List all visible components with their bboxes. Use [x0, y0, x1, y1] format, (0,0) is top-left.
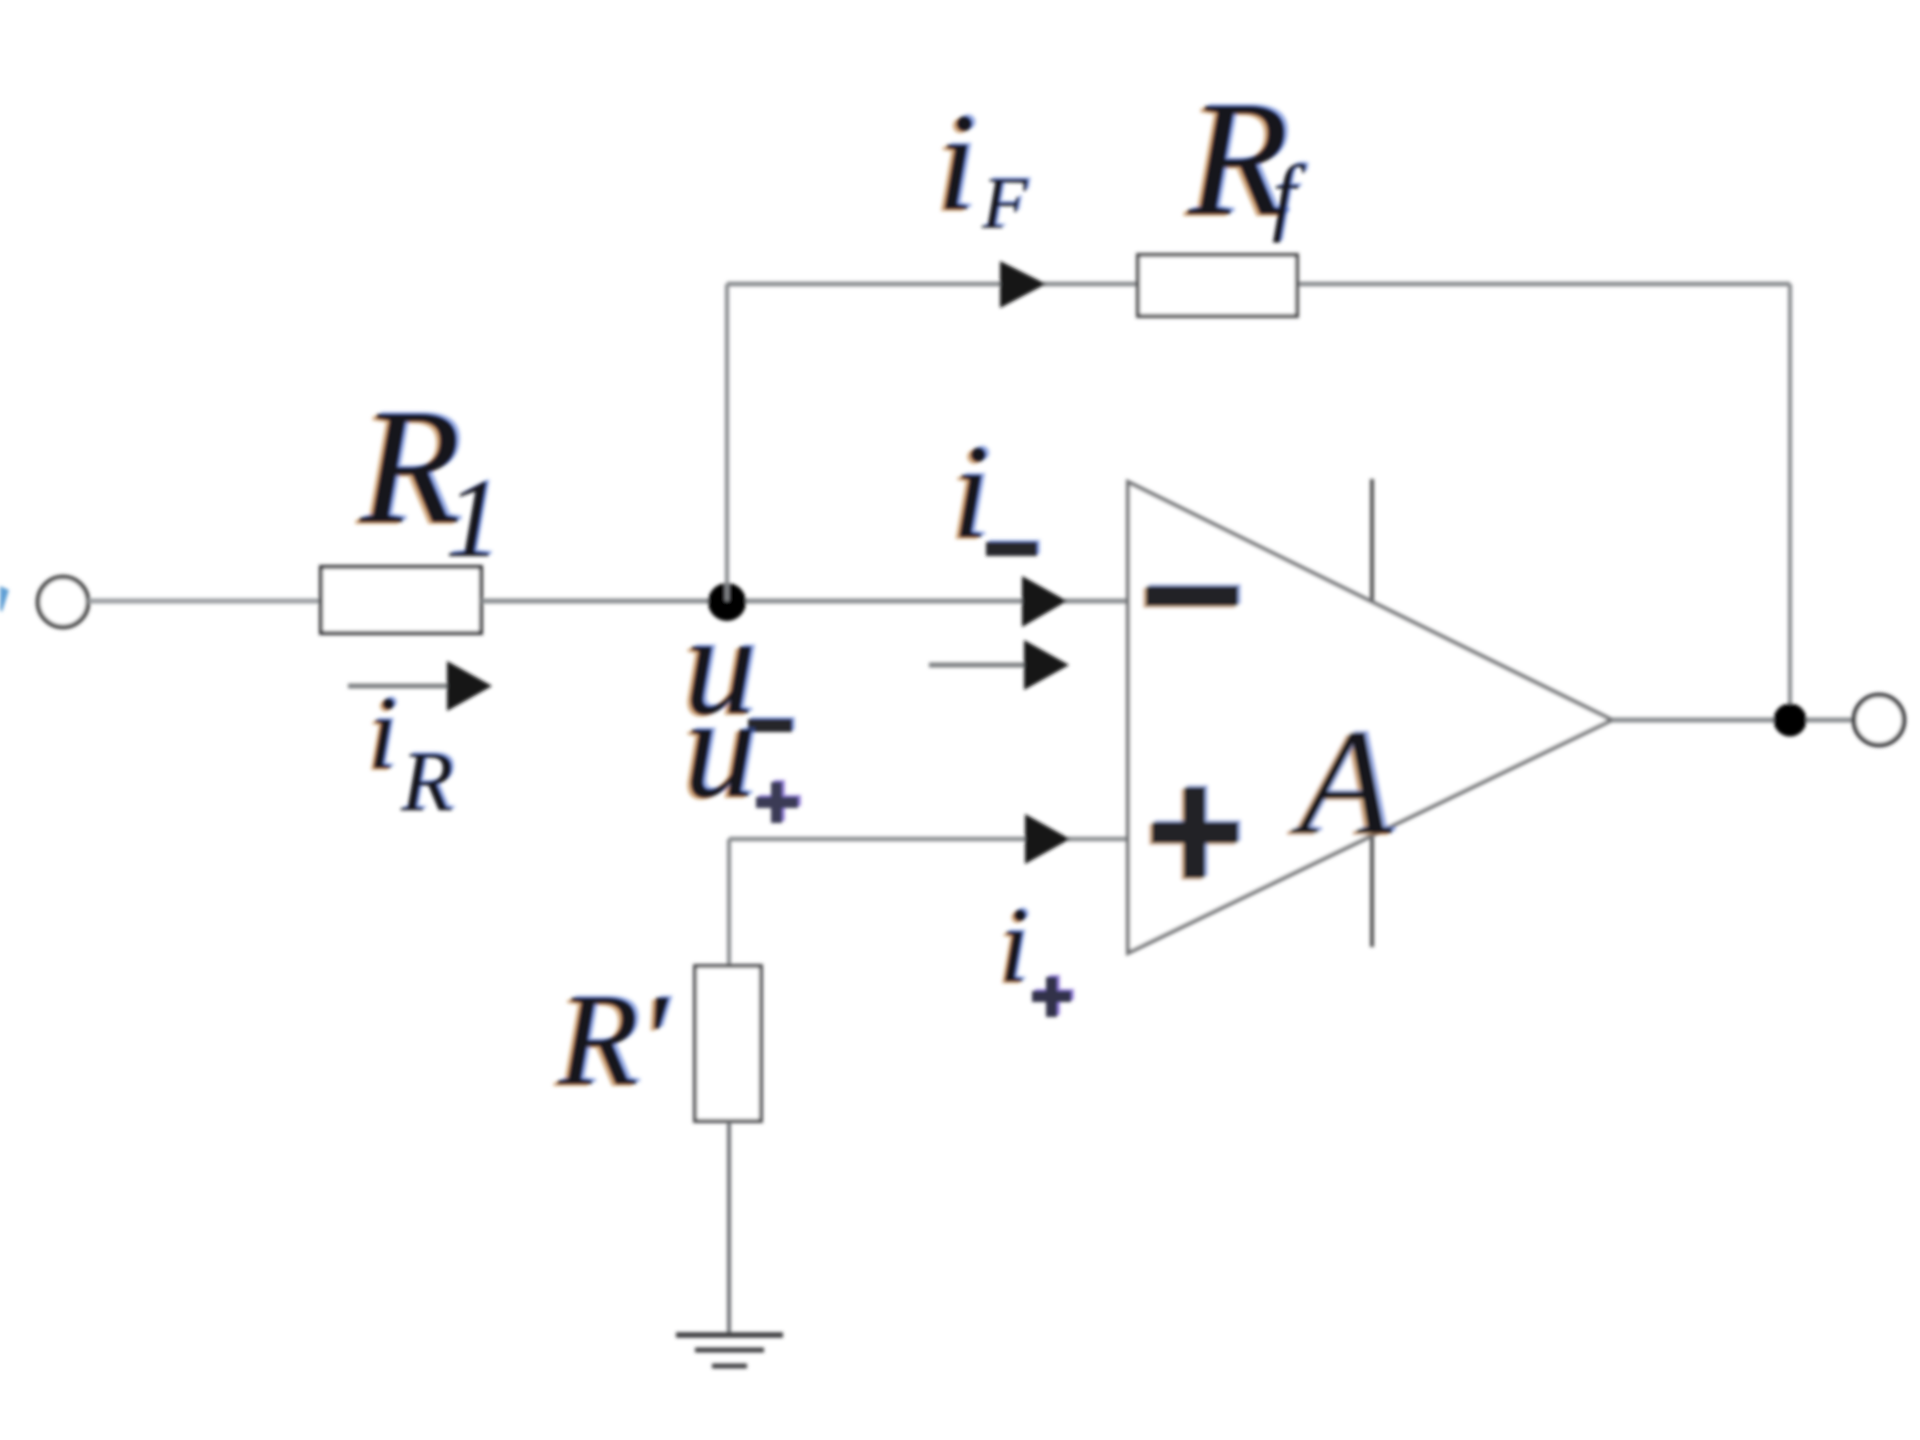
arrow (middle short arrow) [929, 640, 1069, 690]
svg-text:R': R' [557, 966, 670, 1113]
label Rf [1183, 65, 1309, 252]
svg-text:i: i [368, 674, 397, 791]
svg-text:i: i [999, 886, 1029, 1005]
resistor R' [695, 966, 761, 1121]
svg-text:R: R [400, 733, 454, 829]
wire R1 to op-amp inverting input [481, 599, 1129, 604]
wire feedback top [727, 282, 1790, 287]
wire non-inverting input [729, 837, 1129, 842]
wire feedback right down to output [1788, 284, 1792, 720]
input terminal [38, 577, 88, 627]
op-amp plus input sign [1149, 785, 1241, 880]
op-amp minus input sign [1143, 584, 1241, 608]
svg-text:1: 1 [445, 457, 501, 581]
label u+ (node voltage) [680, 666, 801, 830]
wire node up to feedback [725, 284, 729, 601]
resistor Rf [1138, 255, 1297, 316]
ground [676, 1335, 783, 1366]
label u- (node voltage) [680, 583, 795, 747]
label iF [933, 83, 1031, 245]
wire R' to ground [727, 1121, 731, 1335]
label A (op-amp gain) [1286, 696, 1397, 868]
cropped input label fragment (left edge) [0, 586, 9, 612]
label R1 [355, 373, 504, 581]
node output [1774, 704, 1807, 737]
arrow iR below R1 [348, 661, 492, 711]
arrow iF on feedback wire [1000, 261, 1046, 308]
op-amp internal vertical line [1370, 479, 1374, 947]
svg-text:f: f [1272, 147, 1306, 243]
svg-text:A: A [1290, 698, 1393, 866]
label i- [948, 416, 1040, 569]
wire input to R1 [88, 599, 322, 604]
node A (inverting input node) [708, 583, 746, 621]
svg-text:i: i [937, 85, 976, 240]
svg-text:u: u [684, 668, 757, 828]
output terminal [1854, 695, 1904, 745]
svg-text:i: i [952, 418, 990, 567]
resistor R1 [321, 567, 481, 633]
op-amp U1 triangle [1128, 482, 1612, 953]
label R' [553, 964, 674, 1115]
label i+ [996, 884, 1074, 1017]
label iR [365, 672, 457, 829]
wire op-amp output [1612, 718, 1854, 723]
wire non-inverting down to R' [727, 839, 731, 968]
arrow i- on inverting input wire [1022, 576, 1067, 627]
svg-text:F: F [981, 163, 1028, 245]
arrow i+ on non-inverting wire [1025, 814, 1070, 864]
